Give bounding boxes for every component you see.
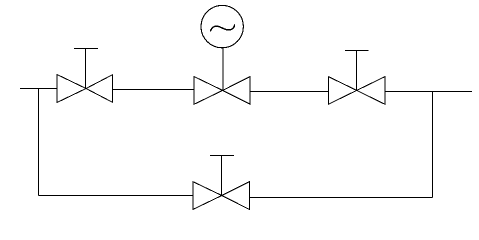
valve V2 right triangle bbox=[223, 77, 251, 105]
wire: bottom left run to V4 bbox=[39, 195, 193, 197]
tilde symbol inside U1 bbox=[211, 25, 235, 31]
wire: V2 to V3 bbox=[250, 91, 328, 93]
valve V3 stem bbox=[356, 51, 358, 91]
valve V1 stem bbox=[85, 49, 87, 89]
valve V3 (right) left triangle bbox=[328, 77, 356, 105]
valve V1 T-bar bbox=[74, 48, 98, 50]
valve V1 right triangle bbox=[86, 75, 113, 103]
wire: left stub into V1 bbox=[20, 88, 57, 90]
valve V4 (bottom) left triangle bbox=[193, 182, 222, 210]
valve V4 stem bbox=[221, 156, 223, 196]
valve V3 right triangle bbox=[357, 77, 385, 105]
wire: bottom right run from V4 bbox=[250, 197, 433, 199]
wire: V3 to right branch bbox=[385, 91, 472, 93]
wire: stem from U1 to valve V2 bbox=[222, 48, 224, 91]
wire: V1 to V2 bbox=[113, 89, 195, 91]
valve V3 T-bar bbox=[345, 50, 369, 52]
valve V2 (middle) left triangle bbox=[194, 77, 222, 105]
AC source circle U1 bbox=[201, 5, 243, 47]
valve V1 (left) left triangle bbox=[57, 75, 86, 103]
wire: left branch vertical bbox=[38, 89, 40, 196]
valve V4 right triangle bbox=[222, 182, 250, 210]
wire: right branch vertical bbox=[432, 92, 434, 198]
valve V4 T-bar bbox=[210, 155, 234, 157]
